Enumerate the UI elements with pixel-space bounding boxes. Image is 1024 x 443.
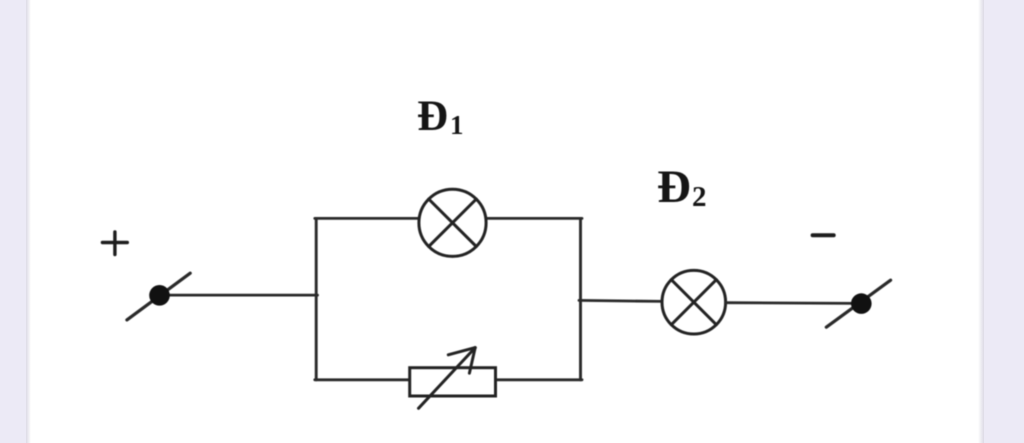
- wire: parallel block to lamp D2: [579, 300, 663, 301]
- wire: left vertical of parallel block: [315, 218, 318, 379]
- label D1: [417, 93, 464, 140]
- svg-text:Đ: Đ: [657, 161, 691, 213]
- lamp D2 (circle with X): [662, 270, 726, 334]
- wire: bottom branch of parallel block: [315, 378, 582, 381]
- wire: top branch of parallel block: [315, 217, 582, 220]
- svg-text:2: 2: [692, 181, 707, 213]
- minus polarity label: [813, 233, 834, 237]
- lamp D1 (circle with X): [419, 189, 486, 256]
- svg-text:1: 1: [450, 110, 464, 140]
- svg-text:Đ: Đ: [417, 93, 448, 140]
- right terminal dot: [851, 293, 872, 314]
- left switch lever: [127, 273, 190, 320]
- wire: left terminal to parallel block: [166, 294, 318, 297]
- wire: lamp D2 to right terminal: [726, 301, 855, 304]
- wire: right vertical of parallel block: [579, 218, 582, 379]
- left terminal dot: [149, 285, 170, 306]
- right switch lever: [826, 280, 890, 327]
- rheostat (variable resistor) body: [410, 368, 496, 396]
- rheostat arrow: [419, 348, 476, 409]
- label D2: [657, 161, 707, 213]
- plus polarity label: [102, 232, 127, 255]
